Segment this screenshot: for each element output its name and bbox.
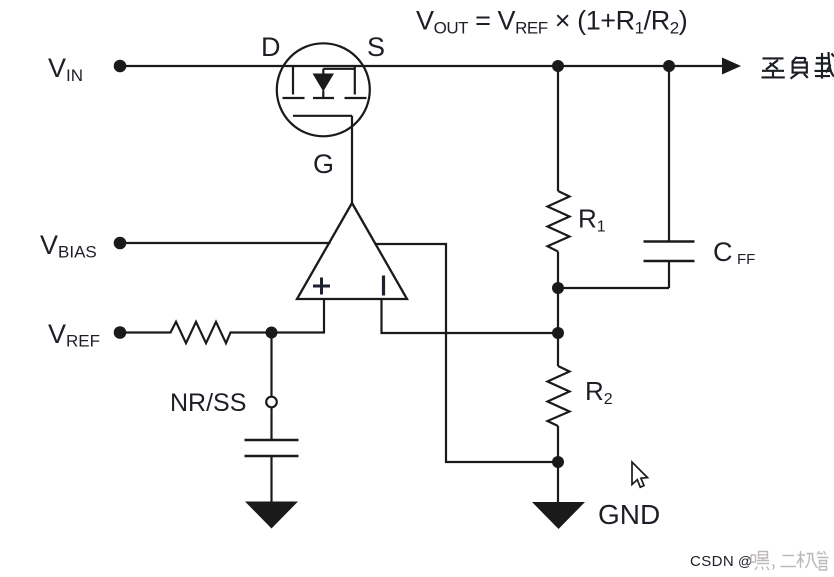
resistor R2 xyxy=(548,366,570,426)
svg-text:NR/SS: NR/SS xyxy=(170,389,246,417)
wire: NR/SS branch down xyxy=(270,333,272,397)
载 xyxy=(815,52,834,79)
svg-text:CFF: CFF xyxy=(713,237,755,268)
wire: R1 to junction xyxy=(557,252,559,289)
node: VBIAS terminal xyxy=(114,237,127,250)
svg-text:R1: R1 xyxy=(578,204,606,236)
ground (NR/SS branch) xyxy=(245,502,298,529)
node: output rail R1 tap xyxy=(552,60,564,72)
wire: output to R1 xyxy=(557,66,559,191)
负 xyxy=(791,57,808,79)
svg-text:D: D xyxy=(261,32,281,62)
二 xyxy=(781,556,797,567)
watermark CSDN @user xyxy=(690,551,829,570)
svg-text:VOUT = VREF × (1+R1/R2): VOUT = VREF × (1+R1/R2) xyxy=(416,6,687,38)
wire: VREF to filter resistor xyxy=(120,331,165,333)
wire: gate to error-amp output xyxy=(351,116,353,204)
wire: inverting input pin to feedback tap xyxy=(382,298,559,333)
wire: CFF bottom down xyxy=(668,261,670,288)
wire: junction to feedback tap xyxy=(557,288,559,333)
mouse cursor xyxy=(632,462,648,487)
label 至负载 (to load) xyxy=(762,52,834,79)
node: R2 bottom / ground node xyxy=(552,456,564,468)
NR/SS pin (open circle) xyxy=(266,397,277,408)
node: VIN terminal xyxy=(114,60,127,73)
svg-text:CSDN: CSDN xyxy=(690,553,734,570)
node: VREF terminal xyxy=(114,326,127,339)
至 xyxy=(762,58,785,77)
svg-text:S: S xyxy=(367,32,385,62)
wire: feedback tap to R2 xyxy=(557,333,559,366)
resistor R1 xyxy=(548,191,570,252)
svg-text:G: G xyxy=(313,149,334,179)
ground (main GND) xyxy=(532,502,585,529)
svg-text:@: @ xyxy=(738,553,752,569)
wire: amplifier ground return xyxy=(375,244,559,462)
op-amp U1 inverting input marker xyxy=(382,276,385,296)
capacitor CFF (feed-forward) xyxy=(644,242,695,262)
capacitor (noise-reduction / soft-start) xyxy=(245,440,299,456)
， xyxy=(773,565,774,570)
wire: CFF bottom to R1 bottom junction xyxy=(558,287,669,289)
node: CFF top tap xyxy=(663,60,675,72)
op-amp U1 (error amplifier) xyxy=(297,203,407,299)
transistor Q1 (PMOS pass element) xyxy=(277,43,370,136)
嘿 xyxy=(751,552,769,571)
resistor (VREF filter) xyxy=(165,322,235,343)
极 xyxy=(797,551,818,568)
node: R1 / CFF junction xyxy=(552,282,564,294)
wire: + input pin xyxy=(323,298,325,333)
arrowhead to load xyxy=(722,58,741,75)
transistor Q1 body-diode arrow xyxy=(313,74,335,92)
wire: R2 to bottom node xyxy=(557,426,559,462)
wire: resistor to + input stub xyxy=(235,331,325,333)
wire: VIN output rail xyxy=(120,65,727,67)
svg-text:VBIAS: VBIAS xyxy=(40,230,97,262)
node: feedback tap xyxy=(552,327,564,339)
管 xyxy=(817,551,829,570)
svg-text:R2: R2 xyxy=(585,376,613,408)
wire: capacitor to ground xyxy=(270,456,272,503)
wire: VBIAS to amplifier xyxy=(120,242,331,244)
op-amp U1 non-inverting input marker + xyxy=(313,278,330,295)
wire: node to ground symbol xyxy=(557,462,559,503)
svg-text:GND: GND xyxy=(598,499,660,530)
svg-text:VREF: VREF xyxy=(48,319,100,351)
svg-text:VIN: VIN xyxy=(48,53,83,85)
node: NR/SS junction xyxy=(266,327,278,339)
wire: rail to CFF xyxy=(668,66,670,241)
wire: NR/SS pin to capacitor xyxy=(270,407,272,439)
